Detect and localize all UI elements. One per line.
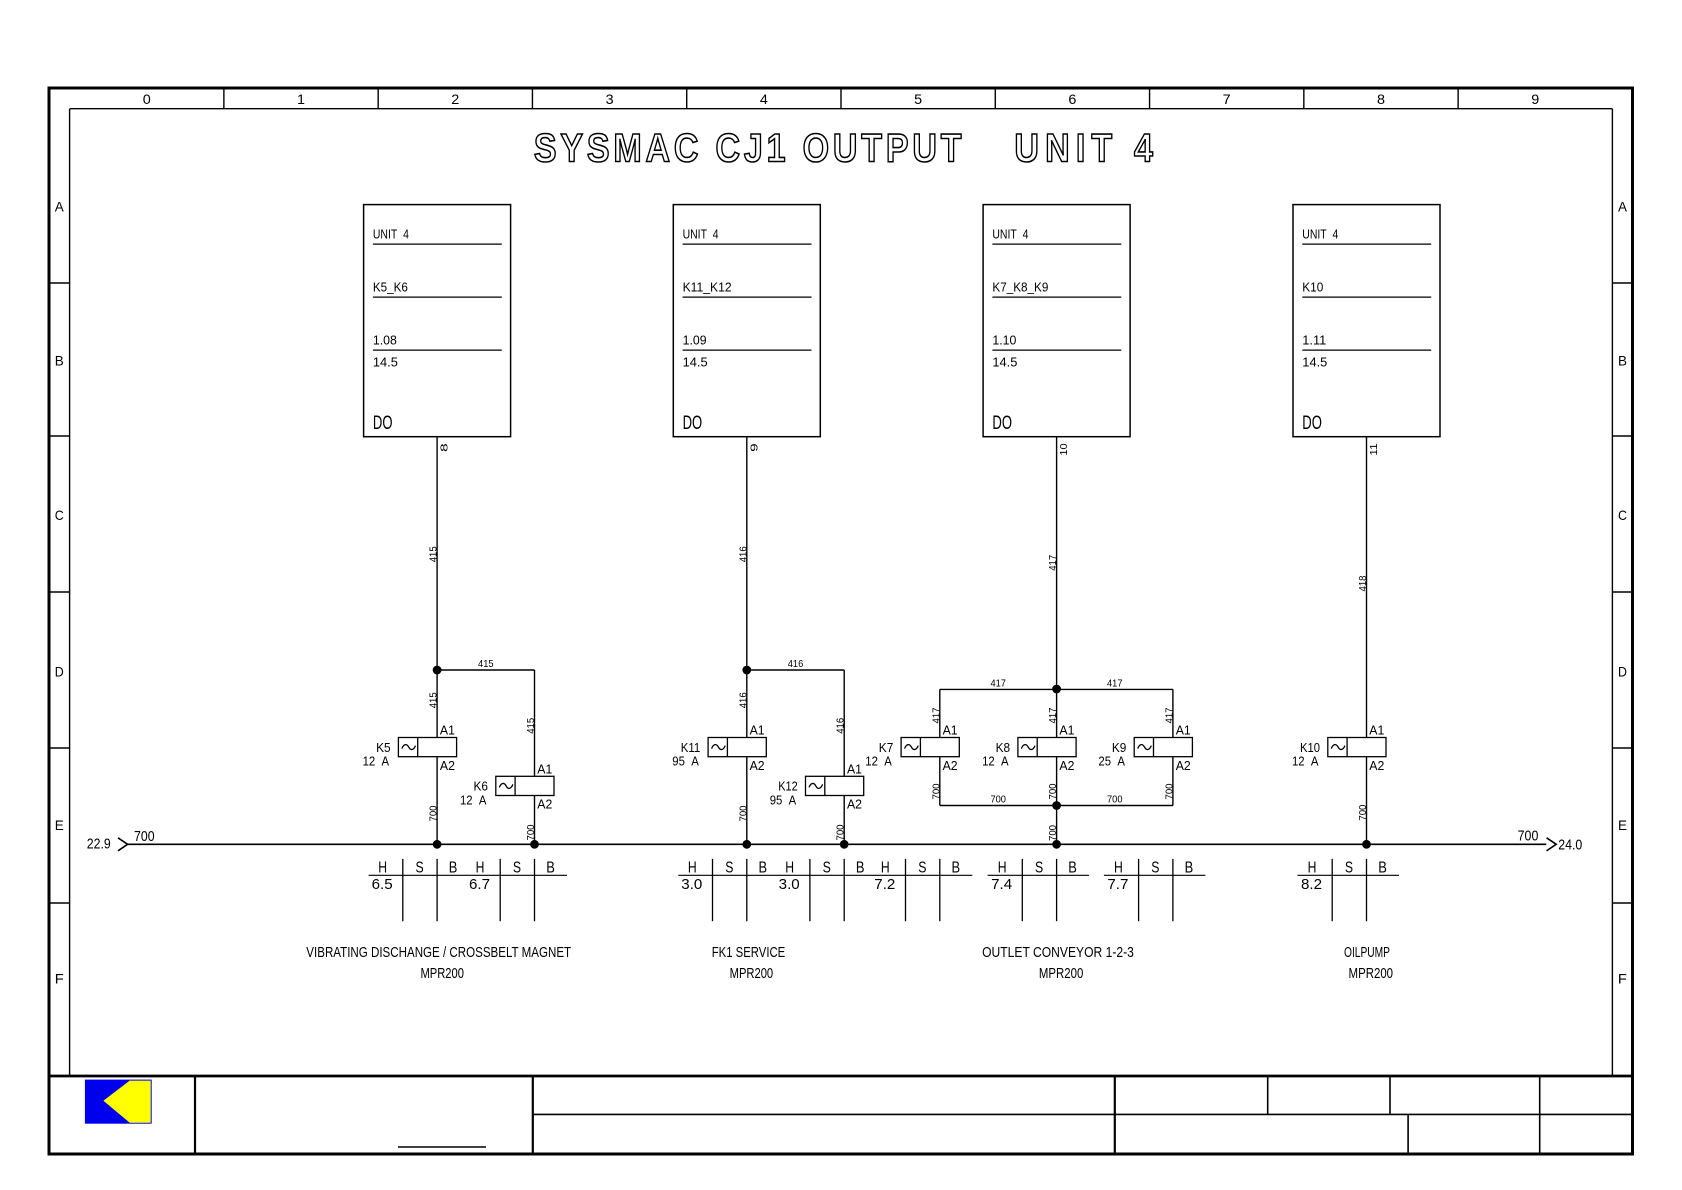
svg-text:A1: A1 (440, 723, 455, 738)
svg-text:415: 415 (429, 546, 440, 562)
svg-text:A2: A2 (440, 758, 455, 773)
svg-text:OUTLET CONVEYOR 1-2-3: OUTLET CONVEYOR 1-2-3 (982, 944, 1134, 961)
svg-text:DO: DO (373, 412, 393, 434)
svg-text:3.0: 3.0 (681, 876, 702, 893)
svg-text:C: C (55, 507, 64, 523)
svg-text:22.9: 22.9 (87, 836, 111, 853)
svg-text:FK1 SERVICE: FK1 SERVICE (712, 944, 786, 961)
svg-text:700: 700 (836, 824, 847, 840)
svg-text:UNIT 4: UNIT 4 (683, 226, 719, 241)
svg-text:B: B (759, 859, 768, 876)
svg-text:416: 416 (788, 659, 804, 670)
svg-text:3: 3 (606, 91, 614, 107)
svg-text:UNIT 4: UNIT 4 (1302, 226, 1338, 241)
svg-text:8: 8 (1377, 91, 1385, 107)
svg-text:417: 417 (1048, 707, 1059, 723)
svg-text:DO: DO (683, 412, 703, 434)
svg-text:S: S (823, 859, 831, 876)
svg-text:12 A: 12 A (363, 754, 390, 769)
svg-text:A2: A2 (537, 797, 552, 812)
svg-text:7.2: 7.2 (874, 876, 895, 893)
svg-text:S: S (1345, 859, 1353, 876)
svg-text:B: B (546, 859, 555, 876)
svg-text:UNIT 4: UNIT 4 (992, 226, 1028, 241)
svg-text:A2: A2 (1176, 758, 1191, 773)
svg-text:D: D (55, 663, 64, 679)
svg-text:A1: A1 (1369, 723, 1384, 738)
svg-text:E: E (1618, 817, 1627, 833)
svg-text:95 A: 95 A (770, 792, 797, 807)
svg-text:H: H (1114, 859, 1123, 876)
svg-text:1.11: 1.11 (1302, 332, 1326, 347)
svg-text:14.5: 14.5 (683, 355, 708, 370)
svg-text:415: 415 (478, 659, 494, 670)
svg-text:416: 416 (836, 718, 847, 734)
svg-text:12 A: 12 A (865, 754, 892, 769)
svg-text:416: 416 (738, 546, 749, 562)
svg-text:B: B (856, 859, 865, 876)
svg-text:S: S (918, 859, 926, 876)
svg-text:UNIT 4: UNIT 4 (1014, 125, 1159, 170)
svg-text:1.09: 1.09 (683, 332, 707, 347)
svg-text:95 A: 95 A (672, 754, 699, 769)
svg-text:8: 8 (440, 443, 451, 452)
svg-text:12 A: 12 A (1292, 754, 1319, 769)
svg-text:MPR200: MPR200 (1039, 965, 1083, 982)
svg-text:A2: A2 (943, 758, 958, 773)
svg-text:B: B (1068, 859, 1077, 876)
svg-text:F: F (55, 971, 64, 987)
svg-text:S: S (1035, 859, 1043, 876)
svg-text:S: S (513, 859, 521, 876)
svg-text:H: H (476, 859, 485, 876)
svg-text:B: B (55, 353, 64, 369)
svg-text:A: A (55, 199, 65, 215)
svg-text:417: 417 (1107, 679, 1123, 690)
svg-text:MPR200: MPR200 (1349, 965, 1394, 982)
svg-text:9: 9 (1531, 91, 1539, 107)
svg-text:A2: A2 (847, 797, 862, 812)
svg-text:B: B (1185, 859, 1194, 876)
svg-text:K7_K8_K9: K7_K8_K9 (992, 279, 1048, 294)
svg-text:D: D (1618, 663, 1627, 679)
svg-text:A: A (1618, 199, 1628, 215)
svg-text:417: 417 (1048, 555, 1059, 571)
svg-text:A1: A1 (847, 761, 862, 776)
svg-text:DO: DO (1302, 412, 1322, 434)
svg-text:700: 700 (1048, 783, 1059, 799)
svg-text:2: 2 (451, 91, 459, 107)
svg-text:418: 418 (1358, 575, 1369, 591)
svg-text:9: 9 (749, 443, 760, 452)
svg-text:700: 700 (429, 805, 440, 821)
svg-text:6.5: 6.5 (372, 876, 393, 893)
svg-text:A2: A2 (750, 758, 765, 773)
svg-text:H: H (1308, 859, 1317, 876)
svg-text:3.0: 3.0 (779, 876, 800, 893)
svg-text:K11_K12: K11_K12 (683, 279, 732, 294)
svg-text:8.2: 8.2 (1301, 876, 1322, 893)
svg-text:415: 415 (526, 718, 537, 734)
svg-text:700: 700 (134, 828, 155, 845)
svg-text:A1: A1 (943, 723, 958, 738)
svg-text:OILPUMP: OILPUMP (1344, 944, 1390, 961)
svg-text:H: H (378, 859, 387, 876)
svg-text:24.0: 24.0 (1558, 837, 1582, 854)
svg-text:25 A: 25 A (1098, 754, 1125, 769)
svg-text:A1: A1 (537, 761, 552, 776)
svg-text:6.7: 6.7 (469, 876, 490, 893)
svg-text:700: 700 (990, 795, 1006, 806)
svg-text:F: F (1618, 971, 1627, 987)
svg-text:415: 415 (429, 692, 440, 708)
svg-text:MPR200: MPR200 (420, 965, 464, 982)
svg-text:700: 700 (1164, 783, 1175, 799)
svg-text:1.10: 1.10 (992, 332, 1016, 347)
svg-text:5: 5 (914, 91, 922, 107)
svg-text:12 A: 12 A (460, 792, 487, 807)
svg-text:S: S (416, 859, 424, 876)
svg-text:C: C (1618, 507, 1627, 523)
svg-text:1: 1 (297, 91, 305, 107)
svg-text:H: H (785, 859, 794, 876)
svg-text:K10: K10 (1302, 279, 1323, 294)
svg-text:B: B (952, 859, 961, 876)
svg-text:A1: A1 (1176, 723, 1191, 738)
svg-text:B: B (1378, 859, 1387, 876)
svg-text:700: 700 (1358, 804, 1369, 820)
svg-text:H: H (688, 859, 697, 876)
svg-text:VIBRATING DISCHANGE / CROSSBEL: VIBRATING DISCHANGE / CROSSBELT MAGNET (306, 944, 571, 961)
svg-text:K5_K6: K5_K6 (373, 279, 408, 294)
svg-text:417: 417 (1164, 707, 1175, 723)
svg-text:7.4: 7.4 (991, 876, 1012, 893)
svg-text:700: 700 (526, 824, 537, 840)
svg-text:14.5: 14.5 (373, 355, 398, 370)
svg-text:700: 700 (931, 783, 942, 799)
svg-text:11: 11 (1369, 443, 1380, 455)
svg-text:S: S (725, 859, 733, 876)
svg-text:B: B (449, 859, 458, 876)
svg-text:A2: A2 (1369, 758, 1384, 773)
svg-text:H: H (998, 859, 1007, 876)
svg-text:7.7: 7.7 (1107, 876, 1128, 893)
svg-text:14.5: 14.5 (992, 355, 1017, 370)
svg-text:DO: DO (992, 412, 1012, 434)
svg-text:MPR200: MPR200 (730, 965, 774, 982)
svg-text:1.08: 1.08 (373, 332, 397, 347)
svg-text:700: 700 (1518, 827, 1539, 844)
svg-text:416: 416 (738, 692, 749, 708)
svg-text:4: 4 (760, 91, 768, 107)
svg-text:417: 417 (931, 707, 942, 723)
svg-text:6: 6 (1068, 91, 1076, 107)
svg-text:14.5: 14.5 (1302, 355, 1327, 370)
svg-text:10: 10 (1059, 443, 1070, 455)
svg-text:H: H (881, 859, 890, 876)
svg-text:7: 7 (1223, 91, 1231, 107)
svg-text:12 A: 12 A (982, 754, 1009, 769)
svg-text:700: 700 (1107, 795, 1123, 806)
svg-text:A2: A2 (1059, 758, 1074, 773)
svg-text:700: 700 (738, 805, 749, 821)
svg-text:SYSMAC CJ1 OUTPUT: SYSMAC CJ1 OUTPUT (534, 125, 965, 170)
svg-text:A1: A1 (750, 723, 765, 738)
svg-text:UNIT 4: UNIT 4 (373, 226, 409, 241)
svg-text:0: 0 (143, 91, 151, 107)
svg-text:B: B (1618, 353, 1627, 369)
svg-text:S: S (1151, 859, 1159, 876)
svg-text:A1: A1 (1059, 723, 1074, 738)
svg-text:417: 417 (990, 679, 1006, 690)
svg-text:E: E (55, 817, 64, 833)
svg-text:700: 700 (1048, 825, 1059, 841)
